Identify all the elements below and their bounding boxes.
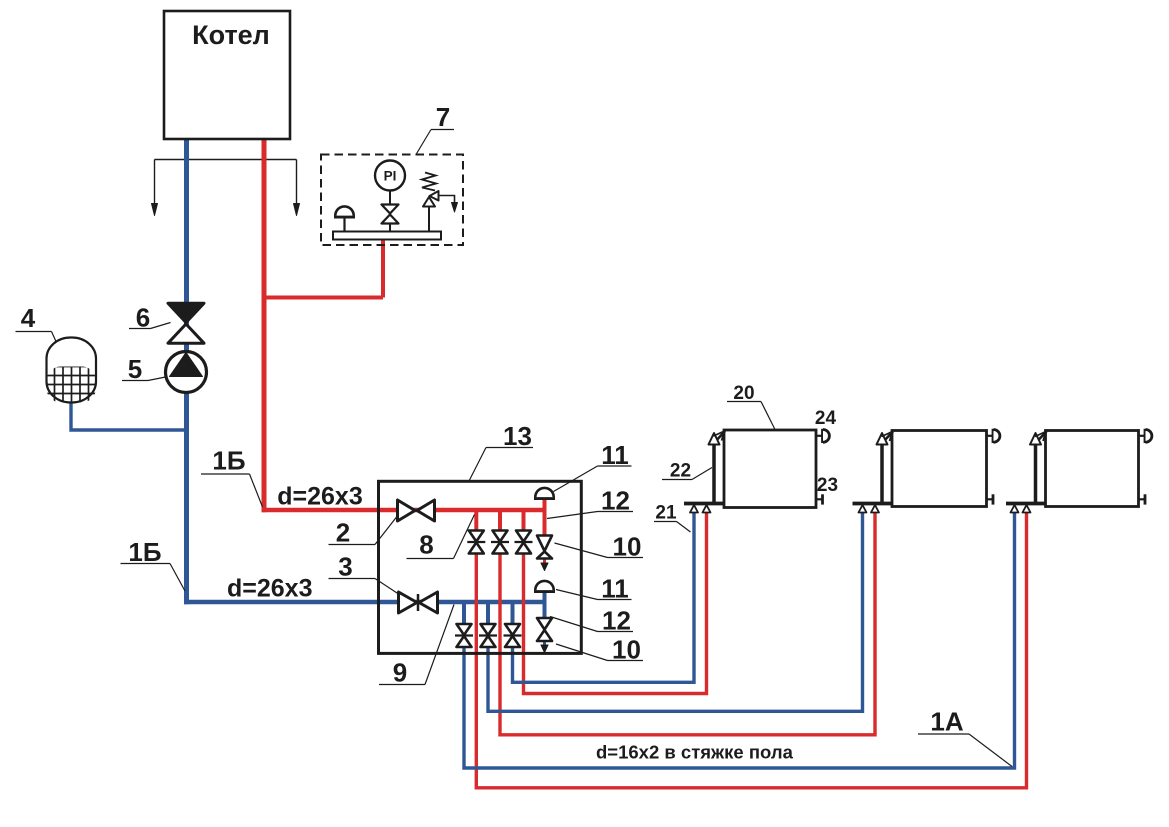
svg-text:1Б: 1Б — [128, 537, 161, 567]
svg-text:Котел: Котел — [192, 20, 270, 50]
svg-text:9: 9 — [393, 658, 407, 688]
svg-text:2: 2 — [336, 518, 350, 548]
svg-text:1А: 1А — [930, 707, 963, 737]
svg-text:8: 8 — [419, 530, 433, 560]
svg-text:7: 7 — [436, 102, 450, 132]
svg-text:d=26x3: d=26x3 — [277, 483, 363, 511]
svg-text:24: 24 — [815, 408, 837, 429]
svg-text:1Б: 1Б — [212, 446, 245, 476]
svg-text:4: 4 — [21, 303, 36, 333]
svg-text:21: 21 — [655, 503, 677, 524]
svg-text:3: 3 — [338, 552, 352, 582]
svg-text:22: 22 — [670, 461, 691, 482]
svg-text:PI: PI — [384, 169, 397, 184]
svg-text:20: 20 — [733, 383, 754, 404]
svg-text:d=26x3: d=26x3 — [227, 575, 313, 603]
svg-text:5: 5 — [128, 354, 142, 384]
svg-text:d=16x2 в стяжке пола: d=16x2 в стяжке пола — [596, 742, 794, 763]
svg-text:23: 23 — [817, 475, 838, 496]
svg-text:13: 13 — [503, 421, 532, 451]
